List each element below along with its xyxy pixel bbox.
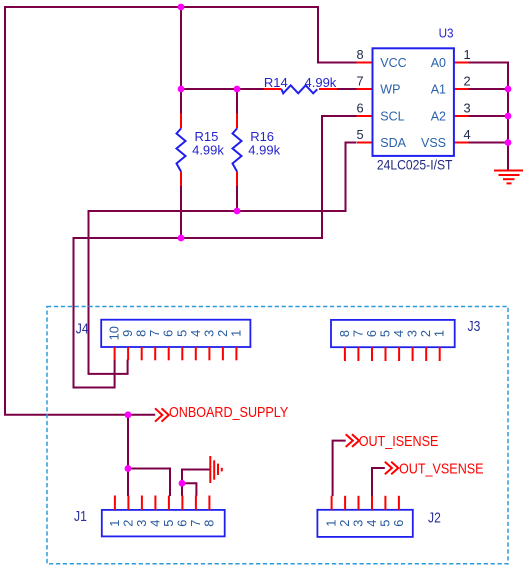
connector J3 body (331, 320, 455, 347)
junction VSS / ground rail (505, 139, 512, 146)
svg-text:VCC: VCC (380, 56, 406, 70)
resistor R15 bottom stub (180, 172, 182, 187)
junction J1 pin2/pin5 (125, 465, 132, 472)
svg-text:A0: A0 (431, 56, 446, 70)
resistor R15 zigzag (177, 129, 186, 172)
dashed group border (47, 307, 508, 564)
svg-text:8: 8 (356, 47, 363, 62)
wire WP net right segment (337, 88, 357, 90)
svg-text:J4: J4 (76, 321, 89, 337)
resistor R14 left lead (264, 88, 282, 90)
pin stub U3 pin1 (454, 62, 469, 64)
wire VSS pin4 (469, 142, 509, 144)
resistor R14 right lead (319, 88, 337, 90)
J4 pin numbers (107, 326, 244, 340)
resistor R15 top stub (180, 114, 182, 129)
svg-text:5: 5 (356, 127, 363, 142)
svg-text:1: 1 (463, 47, 470, 62)
junction R16 top (234, 86, 241, 93)
U3 pin names (380, 56, 446, 150)
wire J1 ground subnet (182, 470, 210, 484)
J2 pin stubs (332, 496, 399, 510)
svg-text:3: 3 (463, 101, 470, 116)
junction J1 pin6/pin7 ground (179, 480, 186, 487)
wire SCL net (74, 116, 357, 388)
power port chevron OUT_VSENSE (385, 462, 399, 475)
junction A2 / ground rail (505, 113, 512, 120)
wire A1 pin2 (469, 88, 509, 90)
svg-text:J1: J1 (74, 508, 87, 524)
svg-text:24LC025-I/ST: 24LC025-I/ST (377, 157, 453, 173)
svg-text:8: 8 (201, 520, 216, 527)
wire R15 top lead (180, 89, 182, 114)
wire SDA net (89, 143, 357, 374)
wire R16 top lead (236, 89, 238, 114)
svg-text:7: 7 (356, 74, 363, 89)
connector J2 body (317, 510, 412, 537)
junction ONBOARD_SUPPLY (125, 411, 132, 418)
wire WP net left segment (181, 88, 264, 90)
wire A2 pin3 (469, 115, 509, 117)
resistor R16 top stub (236, 114, 238, 129)
svg-text:SCL: SCL (380, 110, 404, 124)
wire VCC net: top rail, left rail, to ONBOARD_SUPPLY (5, 7, 357, 415)
wire J1 pin2 branch (127, 469, 129, 497)
svg-text:2: 2 (463, 74, 470, 89)
svg-text:4: 4 (463, 127, 470, 142)
ground symbol near VSS (494, 171, 523, 184)
connector J1 body (102, 510, 225, 537)
svg-text:VSS: VSS (421, 136, 446, 150)
wire R15 bottom lead (180, 186, 182, 238)
svg-text:J3: J3 (468, 318, 481, 334)
U3 pin numbers (356, 47, 470, 142)
svg-text:1: 1 (228, 330, 243, 337)
wire OUT_VSENSE to J2 pin4 (372, 468, 385, 496)
junction A1 / ground rail (505, 86, 512, 93)
svg-text:A2: A2 (431, 110, 446, 124)
J4 pin stubs (115, 347, 237, 360)
pin stub U3 pin3 (454, 115, 469, 117)
wire A0 pin1 to ground rail (469, 63, 509, 171)
op-amp U3 body (373, 48, 454, 156)
svg-text:SDA: SDA (380, 136, 406, 150)
svg-text:OUT_VSENSE: OUT_VSENSE (399, 460, 484, 476)
svg-text:4.99k: 4.99k (192, 142, 224, 157)
ground symbol near J1 (rotated) (210, 456, 222, 483)
svg-text:OUT_ISENSE: OUT_ISENSE (359, 433, 439, 449)
J3 pin stubs (345, 347, 440, 361)
wire J1 pin7 branch (182, 483, 196, 496)
svg-text:4.99k: 4.99k (305, 75, 337, 90)
svg-text:A1: A1 (431, 83, 446, 97)
resistor R16 bottom stub (236, 172, 238, 187)
svg-text:U3: U3 (439, 26, 454, 41)
svg-text:WP: WP (380, 83, 400, 97)
pin stub U3 pin4 (454, 142, 469, 144)
svg-text:6: 6 (356, 101, 363, 116)
pin stub U3 pin5 (357, 142, 373, 144)
junction R15 bottom / SCL (178, 235, 185, 242)
svg-text:1: 1 (432, 330, 447, 337)
junction VCC top rail (178, 4, 185, 11)
resistor R14 zigzag (282, 85, 318, 93)
power port chevron OUT_ISENSE (346, 434, 359, 447)
J3 pin numbers (337, 330, 447, 337)
wire VCC branch to R15/R16 tops (180, 7, 182, 89)
svg-text:6: 6 (391, 520, 406, 527)
pin stub U3 pin7 (357, 88, 373, 90)
svg-text:R14: R14 (264, 75, 288, 90)
power port chevron ONBOARD_SUPPLY (155, 408, 169, 421)
J2 pin numbers (324, 520, 406, 527)
junction R15 top (178, 86, 185, 93)
svg-text:ONBOARD_SUPPLY: ONBOARD_SUPPLY (169, 404, 288, 420)
wire J1 pin6 branch (181, 483, 183, 496)
junction R16 bottom / SDA (234, 208, 241, 215)
J1 pin stubs (115, 496, 209, 510)
wire J1 pin5 branch (128, 469, 170, 497)
pin stub U3 pin6 (357, 115, 373, 117)
J1 pin numbers (107, 520, 216, 527)
pin stub U3 pin8 (357, 62, 373, 64)
pin stub U3 pin2 (454, 88, 469, 90)
wire R16 bottom lead (236, 186, 238, 211)
connector J4 body (101, 320, 250, 347)
resistor R16 zigzag (233, 129, 242, 172)
svg-text:J2: J2 (428, 510, 441, 526)
svg-text:4.99k: 4.99k (248, 142, 280, 157)
wire ONBOARD branch down to J1 (127, 415, 129, 469)
wire OUT_ISENSE to J2 pin1 (333, 441, 346, 496)
